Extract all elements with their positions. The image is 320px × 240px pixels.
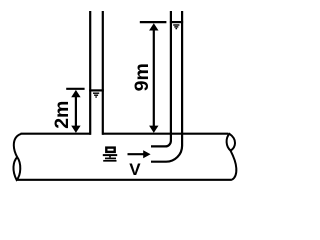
mul glyph: rieul top bar: [105, 157, 116, 159]
pipe bottom wall: [18, 179, 232, 181]
pipe left break symbol: [13, 134, 21, 180]
piezometer water surface line: [89, 89, 104, 91]
piezometer tube left wall: [89, 11, 91, 135]
velocity arrowhead: [143, 150, 150, 158]
pitot water surface hatch marks: [173, 25, 179, 29]
2m dimension line: [75, 94, 77, 128]
piezometer water surface hatch marks: [93, 93, 99, 97]
mul glyph: u vowel bar: [103, 154, 117, 156]
svg-text:V: V: [129, 160, 141, 179]
pitot tube outer (right) wall with bend: [151, 11, 182, 162]
velocity arrow: [128, 153, 145, 155]
9m arrowhead up: [149, 23, 158, 30]
9m dimension cap line: [140, 21, 167, 23]
2m dimension cap line: [66, 88, 84, 90]
svg-text:9m: 9m: [131, 63, 153, 91]
9m arrowhead down: [149, 126, 158, 133]
pipe right break symbol: [227, 134, 237, 180]
2m arrowhead up: [71, 90, 80, 97]
pipe top wall left segment: [21, 133, 92, 135]
svg-text:2m: 2m: [51, 101, 73, 129]
mul glyph: rieul bottom bar: [103, 160, 116, 162]
pitot water surface line: [170, 21, 183, 23]
9m dimension line: [153, 27, 155, 128]
2m arrowhead down: [71, 126, 80, 133]
pipe top wall right segment: [102, 133, 228, 135]
mul glyph: u vowel stem: [109, 156, 111, 157]
mul (water) glyph: mieum box: [106, 148, 114, 152]
piezometer tube right wall: [102, 11, 104, 135]
pitot tube inner (left) wall with bend: [151, 11, 171, 146]
